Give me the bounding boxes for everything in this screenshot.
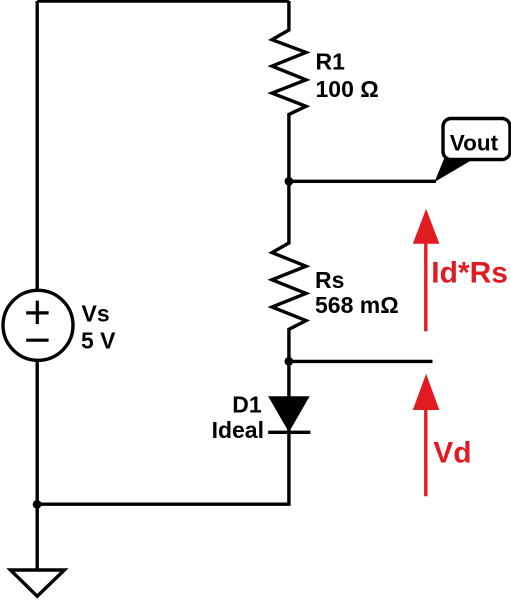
svg-text:568 mΩ: 568 mΩ xyxy=(315,292,399,318)
svg-text:Vout: Vout xyxy=(450,130,499,155)
svg-text:R1: R1 xyxy=(316,49,346,75)
svg-text:Rs: Rs xyxy=(315,267,344,293)
svg-text:D1: D1 xyxy=(232,392,262,418)
svg-text:Vd: Vd xyxy=(433,437,471,470)
svg-text:100 Ω: 100 Ω xyxy=(316,76,379,102)
svg-text:5 V: 5 V xyxy=(81,327,116,353)
svg-text:Id*Rs: Id*Rs xyxy=(431,257,508,290)
svg-text:Ideal: Ideal xyxy=(212,417,264,443)
svg-text:Vs: Vs xyxy=(82,300,110,326)
